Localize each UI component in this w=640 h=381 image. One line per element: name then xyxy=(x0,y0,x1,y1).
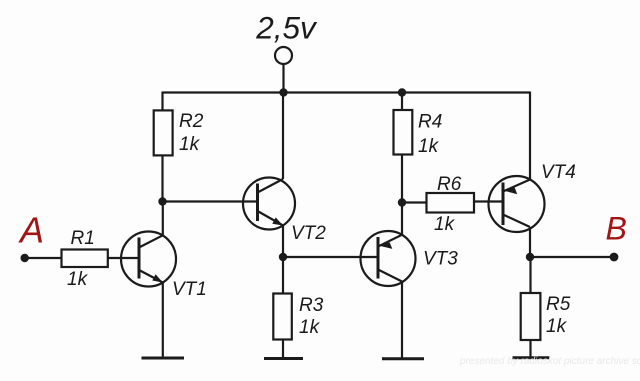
wire supply circle to top rail xyxy=(282,64,284,93)
node VT2 emitter R3 junction xyxy=(279,253,287,261)
node rail R4 junction xyxy=(398,88,406,96)
resistor R6 xyxy=(427,193,475,213)
ground VT1 xyxy=(142,357,185,360)
wire VT3 emitter up to node xyxy=(401,203,403,235)
wire R6 to VT4 base xyxy=(474,200,503,202)
transistor VT1 xyxy=(121,232,176,287)
svg-text:1k: 1k xyxy=(434,214,456,235)
wire node to R6 xyxy=(402,201,427,203)
svg-text:1k: 1k xyxy=(299,317,321,338)
wire R3 to ground xyxy=(282,340,284,359)
terminal B dot xyxy=(610,253,619,262)
node rail center junction xyxy=(279,88,287,96)
svg-text:R2: R2 xyxy=(179,111,204,132)
node R2 VT1 VT2-base junction xyxy=(158,197,166,205)
resistor R4 xyxy=(394,110,413,155)
resistor R3 xyxy=(273,294,292,340)
wire node to R3 xyxy=(282,257,284,294)
svg-text:R1: R1 xyxy=(71,228,95,249)
wire VT2 emitter to node xyxy=(282,226,284,258)
wire VT3 collector to ground xyxy=(401,282,403,359)
resistor R2 xyxy=(154,110,173,155)
svg-text:VT1: VT1 xyxy=(172,279,207,300)
svg-text:A: A xyxy=(18,210,44,251)
wire R4 to node xyxy=(401,155,403,203)
node VT4 R5 B junction xyxy=(526,253,534,261)
svg-text:B: B xyxy=(606,211,627,247)
wire VT2 collector to rail xyxy=(282,93,284,180)
ground VT3 xyxy=(382,357,424,360)
wire R2 bottom to node xyxy=(161,155,163,201)
svg-text:R6: R6 xyxy=(437,174,462,195)
wire VT4 emitter up to rail xyxy=(529,92,531,180)
svg-text:1k: 1k xyxy=(67,269,89,290)
wire VT1 collector xyxy=(162,202,164,236)
wire node to VT2 base xyxy=(163,200,258,202)
wire node to VT3 base xyxy=(283,256,378,258)
svg-text:presented by radioskot picture: presented by radioskot picture archive s… xyxy=(459,356,640,367)
wire A terminal to R1 xyxy=(25,257,62,259)
ground R5 xyxy=(513,356,550,359)
svg-text:R5: R5 xyxy=(546,294,571,315)
transistor VT4 xyxy=(489,176,545,232)
svg-text:VT3: VT3 xyxy=(423,249,458,270)
wire node to B terminal xyxy=(530,256,614,258)
svg-text:R4: R4 xyxy=(418,112,442,133)
wire rail left drop to R2 xyxy=(161,92,163,112)
wire top rail xyxy=(163,91,531,93)
svg-text:VT4: VT4 xyxy=(541,162,576,183)
svg-text:1k: 1k xyxy=(179,134,201,155)
node R4 R6 VT3 junction xyxy=(398,198,406,206)
wire VT1 emitter to ground xyxy=(162,283,164,359)
terminal A dot xyxy=(21,254,29,262)
wire VT4 collector to node xyxy=(529,227,531,257)
ground R3 xyxy=(264,357,303,360)
wire R5 to ground xyxy=(529,340,531,358)
svg-text:VT2: VT2 xyxy=(291,223,326,244)
wire R1 to VT1 base xyxy=(108,257,139,259)
wire rail to R4 xyxy=(401,93,403,111)
transistor VT2 xyxy=(243,178,295,230)
wire node to R5 xyxy=(529,257,531,293)
resistor R5 xyxy=(521,293,541,340)
svg-text:2,5v: 2,5v xyxy=(255,10,318,46)
transistor VT3 xyxy=(361,231,416,286)
resistor R1 xyxy=(62,250,108,268)
svg-text:1k: 1k xyxy=(546,316,568,337)
svg-text:R3: R3 xyxy=(299,295,324,316)
supply terminal circle xyxy=(275,47,292,64)
svg-text:1k: 1k xyxy=(418,136,440,157)
